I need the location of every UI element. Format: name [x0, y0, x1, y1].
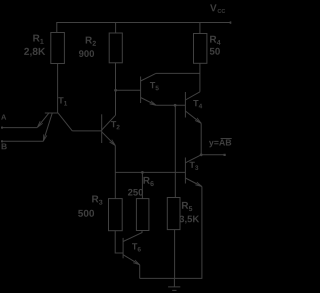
label T2	[111, 121, 120, 129]
T1 collector	[58, 113, 72, 131]
wire T4 emitter to output node	[200, 123, 202, 155]
node R6 junction	[141, 171, 144, 174]
wire input B	[2, 140, 43, 142]
value 500	[78, 210, 94, 217]
node output junction	[200, 153, 203, 156]
T2 collector	[102, 115, 116, 130]
T5 collector (to R4 node)	[141, 73, 156, 81]
transistor T4 base bar	[184, 92, 186, 118]
T5 emitter	[141, 98, 157, 106]
wire R3 bottom to T6 base	[115, 231, 123, 253]
node B terminal	[1, 140, 3, 142]
wire T2 emitter down to R3	[114, 146, 116, 199]
node R5 / T4 base junction	[174, 104, 177, 107]
wire to T5 base	[116, 89, 141, 91]
label Vcc	[210, 4, 225, 12]
value 50	[210, 48, 220, 55]
transistor T2 base bar	[101, 114, 103, 143]
transistor T3 base bar	[184, 158, 186, 184]
T2 emitter	[102, 132, 116, 146]
label R3	[92, 196, 102, 205]
label T3	[190, 162, 199, 170]
Vcc rail	[56, 22, 230, 24]
wire node to R6	[141, 172, 143, 198]
wire R1 to T1 base	[57, 64, 59, 113]
label output y=AB	[209, 139, 231, 147]
T4 emitter	[185, 111, 201, 123]
transistor T5 base bar	[140, 77, 142, 104]
node line T3 base net	[115, 171, 185, 173]
T6 emitter	[123, 255, 140, 265]
wire R4 top	[199, 23, 201, 34]
T1 emitter 1	[37, 113, 49, 127]
T1 emitter 2	[43, 113, 52, 141]
node T2 collector / T5 base junction	[114, 89, 117, 92]
label A	[1, 114, 6, 119]
label R5	[182, 202, 192, 211]
wire T5 emitter to T4 base	[156, 104, 185, 106]
label T1	[58, 97, 67, 105]
label R1	[33, 35, 43, 44]
label R2	[86, 37, 96, 46]
wire R4 bottom	[199, 63, 201, 92]
wire T3 emitter to ground rail	[201, 187, 203, 279]
wire T5 collector to R4 node	[156, 72, 200, 74]
wire R1 top	[56, 23, 58, 33]
node A terminal	[1, 127, 3, 129]
T3 collector	[185, 155, 201, 163]
Vcc terminal	[230, 21, 232, 23]
ground	[168, 278, 180, 290]
label T5	[150, 82, 159, 90]
T3 emitter	[185, 178, 202, 187]
wire R2 top	[115, 23, 117, 33]
wire T6 emitter to ground rail	[139, 265, 141, 279]
resistor R3	[109, 199, 123, 231]
label T4	[193, 100, 202, 108]
transistor T1 base bar	[45, 112, 59, 114]
T6 collector	[123, 230, 142, 241]
value 2,8K	[24, 48, 45, 57]
value 900	[79, 50, 94, 57]
label B	[2, 143, 7, 149]
resistor R4	[194, 34, 207, 64]
wire output	[201, 154, 224, 156]
label T6	[132, 243, 141, 251]
wire T2 collector to R2	[115, 63, 117, 115]
ground rail	[140, 277, 203, 279]
resistor R6	[136, 199, 149, 231]
resistor R2	[109, 33, 122, 63]
wire R5 top to T4 base node	[174, 105, 176, 197]
transistor T6 base bar	[122, 238, 124, 258]
wire input A	[2, 127, 37, 129]
value 3,5K	[179, 216, 199, 224]
T4 collector	[185, 92, 200, 100]
label R6	[143, 177, 153, 186]
resistor R5	[167, 198, 180, 230]
wire T1 collector to T2 base	[72, 130, 101, 132]
label R4	[210, 36, 220, 45]
value 250	[128, 189, 143, 196]
node output terminal	[224, 154, 226, 156]
overline AB	[221, 138, 232, 140]
wire R5 bottom to rail	[174, 230, 176, 279]
resistor R1	[51, 33, 65, 64]
